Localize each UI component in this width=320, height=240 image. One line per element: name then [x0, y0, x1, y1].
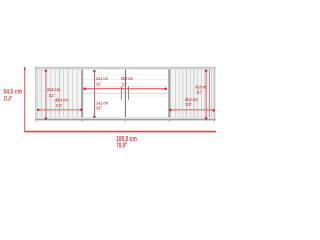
svg-text:9,5": 9,5" — [96, 105, 101, 111]
svg-text:43,6 cm: 43,6 cm — [47, 87, 60, 93]
svg-text:21,4": 21,4" — [4, 95, 13, 102]
svg-text:9,5": 9,5" — [96, 81, 101, 87]
svg-text:16,1": 16,1" — [49, 93, 55, 99]
svg-text:17,8": 17,8" — [56, 103, 62, 109]
svg-text:70,9": 70,9" — [116, 140, 127, 149]
svg-text:54,5 cm: 54,5 cm — [3, 88, 22, 95]
svg-text:16,1": 16,1" — [197, 89, 203, 95]
svg-text:80,8 cm: 80,8 cm — [121, 76, 133, 82]
svg-text:31,8": 31,8" — [122, 82, 127, 88]
svg-text:24,1 cm: 24,1 cm — [96, 76, 108, 82]
svg-text:17,8": 17,8" — [185, 102, 191, 108]
svg-text:45,4 cm: 45,4 cm — [55, 98, 68, 104]
